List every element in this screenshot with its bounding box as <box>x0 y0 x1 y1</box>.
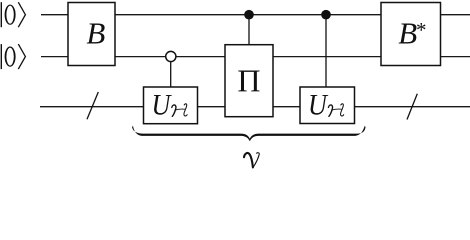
wire: control line from dot1 to Pi box <box>248 15 250 50</box>
gate box Bstar <box>381 3 441 66</box>
control dot 1 <box>244 10 254 20</box>
bus slash right <box>407 94 417 120</box>
svg-text:Π: Π <box>237 63 260 99</box>
ket label |0> top <box>1 2 25 27</box>
svg-text:B: B <box>86 16 105 51</box>
svg-text:U: U <box>152 89 172 122</box>
ket label |0> second <box>1 44 25 69</box>
label script-V <box>244 153 259 168</box>
svg-text:U: U <box>308 89 328 122</box>
wire: control line from dot2 to UH2 box <box>325 15 327 90</box>
underbrace for V <box>132 126 366 141</box>
label script-H subscript of UH2 <box>328 104 343 117</box>
wire q3 (bottom register wire) <box>40 106 470 108</box>
control dot 2 <box>321 10 331 20</box>
gate box Pi <box>225 45 273 117</box>
bus slash left <box>87 92 98 119</box>
open control circle <box>166 51 176 61</box>
gate box UH1 <box>144 87 198 124</box>
wire q2 (second qubit wire) <box>41 56 470 58</box>
wire q1 (top qubit wire) <box>41 14 470 16</box>
gate box B <box>68 3 115 66</box>
svg-text:*: * <box>416 18 427 42</box>
wire: control line from open circle to UH1 box <box>170 57 172 90</box>
gate box UH2 <box>300 87 355 124</box>
label script-H subscript of UH1 <box>172 104 187 117</box>
svg-text:B: B <box>398 16 417 51</box>
